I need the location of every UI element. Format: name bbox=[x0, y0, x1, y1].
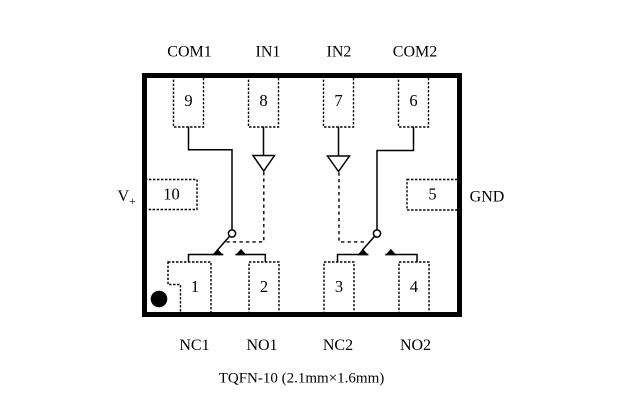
svg-text:5: 5 bbox=[428, 185, 436, 204]
svg-text:GND: GND bbox=[470, 189, 505, 206]
svg-text:V+: V+ bbox=[118, 188, 136, 208]
svg-text:NC2: NC2 bbox=[323, 337, 353, 354]
svg-text:COM2: COM2 bbox=[393, 44, 437, 61]
svg-text:NC1: NC1 bbox=[179, 337, 209, 354]
svg-text:COM1: COM1 bbox=[167, 44, 211, 61]
svg-text:7: 7 bbox=[334, 91, 342, 110]
svg-text:NO1: NO1 bbox=[246, 337, 277, 354]
svg-text:NO2: NO2 bbox=[400, 337, 431, 354]
svg-text:1: 1 bbox=[191, 277, 199, 296]
svg-text:6: 6 bbox=[409, 91, 417, 110]
svg-text:2: 2 bbox=[260, 277, 268, 296]
svg-text:3: 3 bbox=[335, 277, 343, 296]
svg-text:IN2: IN2 bbox=[327, 44, 352, 61]
svg-text:4: 4 bbox=[410, 277, 418, 296]
svg-text:9: 9 bbox=[184, 91, 192, 110]
svg-text:10: 10 bbox=[163, 185, 180, 204]
svg-text:TQFN-10 (2.1mm×1.6mm): TQFN-10 (2.1mm×1.6mm) bbox=[219, 371, 385, 387]
svg-text:IN1: IN1 bbox=[256, 44, 281, 61]
svg-text:8: 8 bbox=[259, 91, 267, 110]
